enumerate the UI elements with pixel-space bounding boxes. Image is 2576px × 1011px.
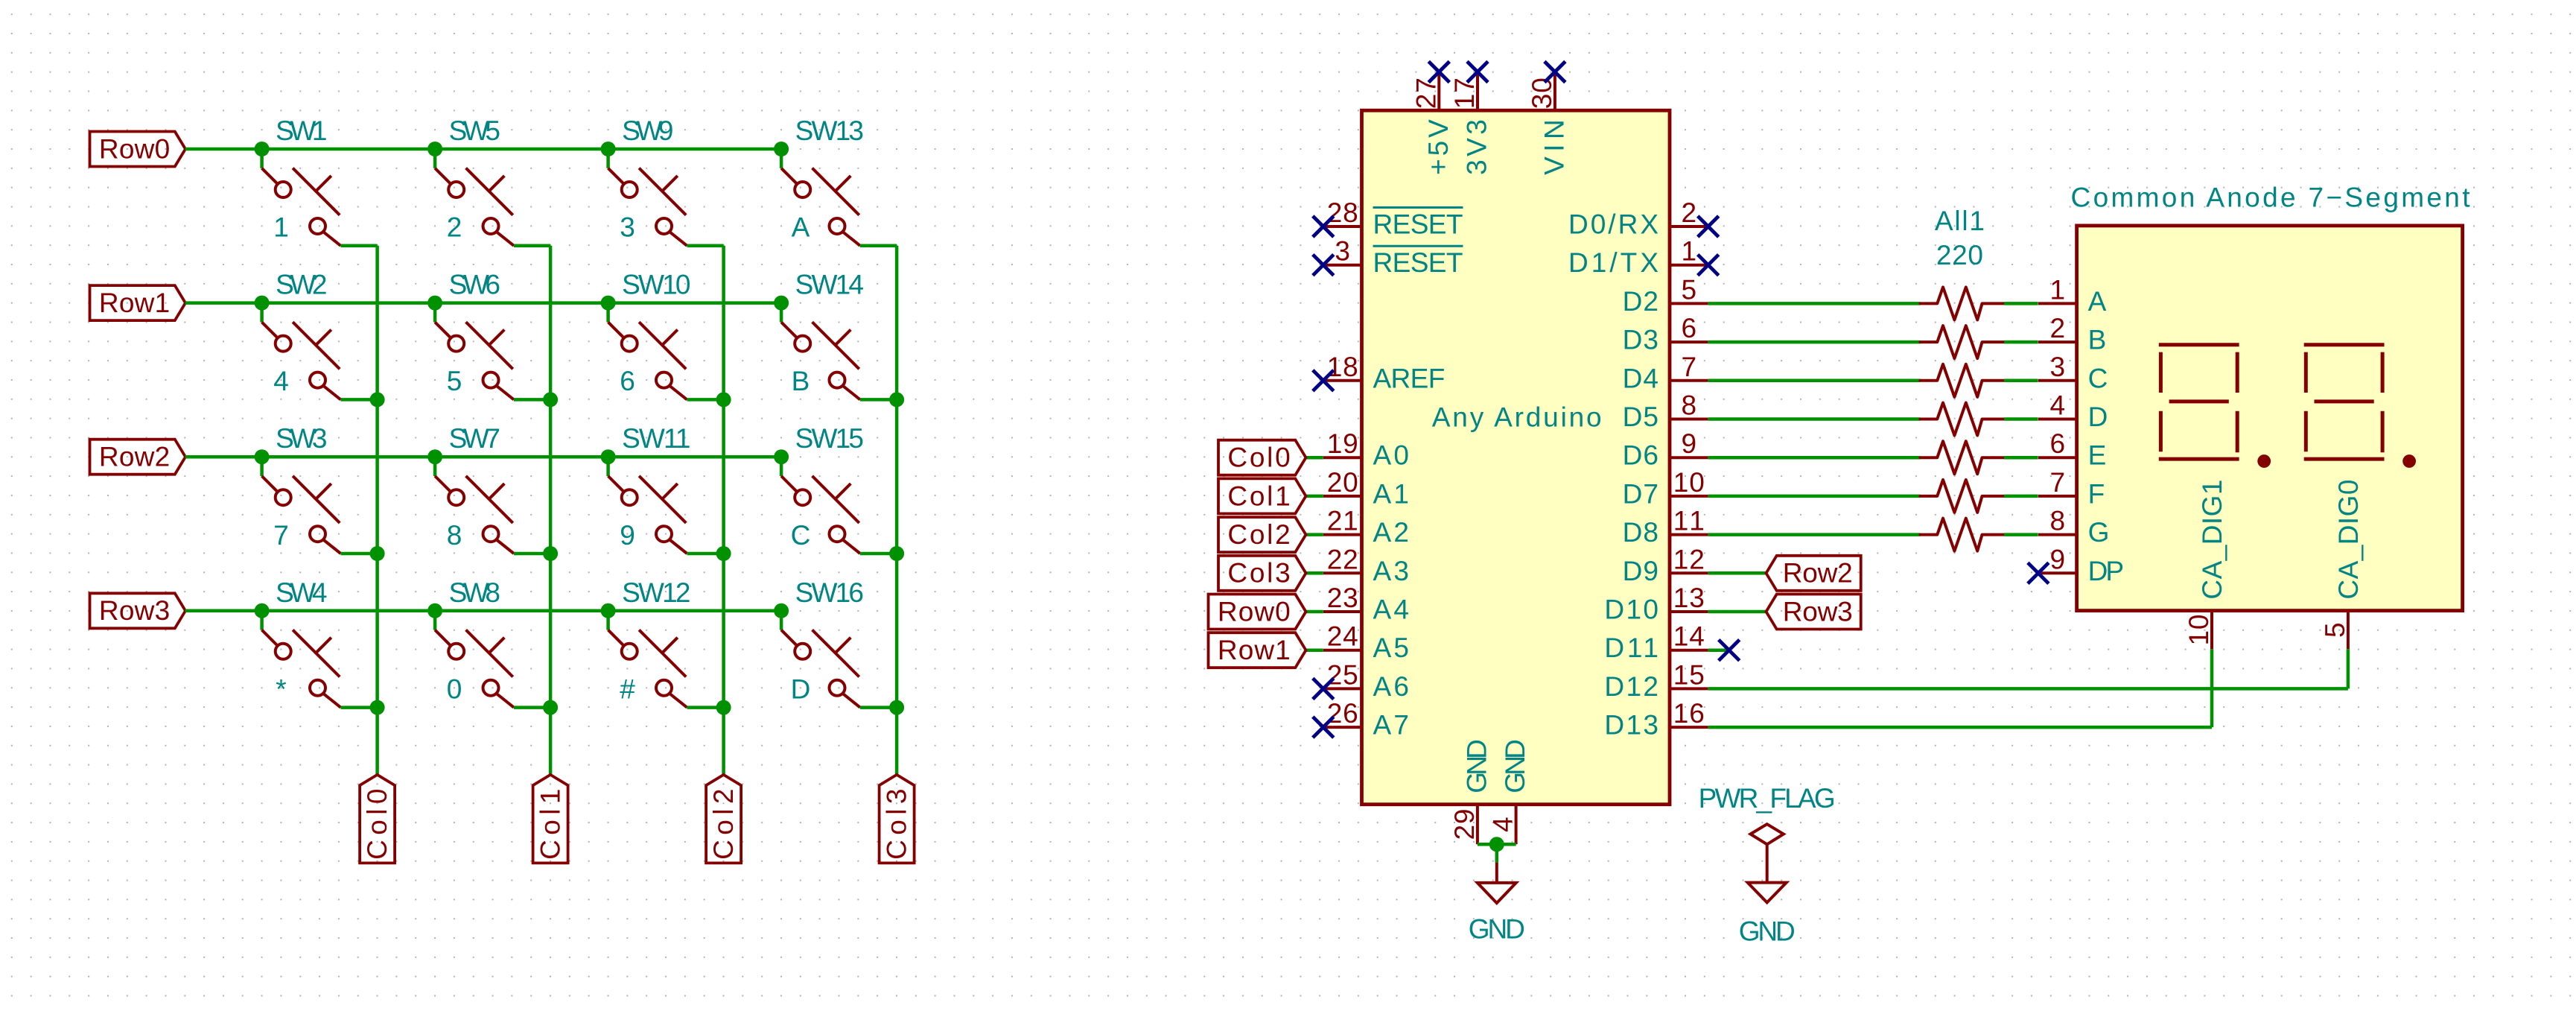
display pin 3 C xyxy=(2038,352,2108,394)
svg-text:A4: A4 xyxy=(1373,595,1409,625)
hierarchical label Row0 xyxy=(1209,595,1306,630)
svg-text:D12: D12 xyxy=(1604,671,1659,702)
svg-text:Col0: Col0 xyxy=(362,789,392,860)
hierarchical label Col2 xyxy=(706,775,741,863)
svg-text:PWR_FLAG: PWR_FLAG xyxy=(1699,783,1836,814)
switch SW16 key "D" xyxy=(781,577,864,708)
wire SW6 output to Col1 xyxy=(514,398,550,402)
pin 21 A2 (left) xyxy=(1323,506,1409,548)
svg-text:RESET: RESET xyxy=(1373,247,1463,278)
junction node row1 / SW14 xyxy=(774,296,789,311)
wire SW3 output to Col0 xyxy=(341,552,378,556)
svg-text:A2: A2 xyxy=(1373,517,1409,548)
no-connect pin 30 xyxy=(1545,62,1565,83)
wire Col3 to pin A3 xyxy=(1306,571,1323,575)
hierarchical label Col3 xyxy=(880,775,915,863)
svg-text:26: 26 xyxy=(1327,698,1358,729)
wire resistor 5 to display xyxy=(2004,456,2038,460)
svg-text:A3: A3 xyxy=(1373,556,1409,586)
svg-text:5: 5 xyxy=(2320,622,2350,638)
wire Col0 to pin A0 xyxy=(1306,456,1323,460)
pin 28 RESET (left) xyxy=(1323,197,1463,240)
svg-text:A: A xyxy=(792,212,810,243)
junction node row2 / SW7 xyxy=(427,449,442,464)
resistor All1 element 4 xyxy=(1920,403,2004,436)
svg-text:SW11: SW11 xyxy=(622,423,690,454)
svg-text:SW6: SW6 xyxy=(449,270,500,300)
svg-text:D10: D10 xyxy=(1604,595,1659,625)
svg-text:8: 8 xyxy=(2050,506,2066,536)
svg-text:D9: D9 xyxy=(1623,556,1659,586)
pin 11 D8 (right) xyxy=(1623,506,1708,548)
resistor All1 element 7 xyxy=(1920,519,2004,551)
pin 17 3V3 (top) xyxy=(1449,72,1492,175)
pin 8 D5 (right) xyxy=(1623,390,1708,433)
svg-text:SW8: SW8 xyxy=(449,577,500,608)
wire SW4 output to Col0 xyxy=(341,706,378,709)
pin 26 A7 (left) xyxy=(1323,698,1409,741)
junction node Col0 / SW3 output xyxy=(370,546,385,561)
wire SW9 output to Col2 xyxy=(687,244,724,248)
svg-text:Row2: Row2 xyxy=(99,442,170,472)
wire Col2 vertical bus xyxy=(722,246,725,775)
junction node row3 / SW16 xyxy=(774,603,789,618)
wire resistor 7 to display xyxy=(2004,533,2038,536)
svg-text:7: 7 xyxy=(273,520,289,551)
pin 12 D9 (right) xyxy=(1623,544,1708,586)
svg-text:SW5: SW5 xyxy=(449,115,500,146)
wire Row2 horizontal bus xyxy=(185,455,781,459)
7-segment digit 1 xyxy=(2159,345,2239,459)
svg-text:A0: A0 xyxy=(1373,440,1409,471)
wire D7 to resistor xyxy=(1708,495,1921,498)
switch SW7 key "8" xyxy=(435,423,514,554)
pin 5 D2 (right) xyxy=(1623,274,1708,317)
junction node Col0 / SW4 output xyxy=(370,700,385,715)
wire D3 to resistor xyxy=(1708,340,1921,344)
switch SW5 key "2" xyxy=(435,115,514,246)
pin 3 RESET (left) xyxy=(1323,236,1463,279)
switch SW1 key "1" xyxy=(262,115,341,246)
svg-text:Common Anode 7−Segment: Common Anode 7−Segment xyxy=(2071,183,2471,213)
ground symbol GND (arduino) xyxy=(1469,863,1525,945)
svg-text:21: 21 xyxy=(1327,506,1358,536)
svg-text:DP: DP xyxy=(2088,556,2124,586)
wire resistor 1 to display xyxy=(2004,302,2038,305)
svg-text:D0/RX: D0/RX xyxy=(1568,209,1659,240)
svg-text:RESET: RESET xyxy=(1373,209,1463,240)
svg-text:Col1: Col1 xyxy=(535,789,566,860)
switch SW6 key "5" xyxy=(435,270,514,400)
svg-text:*: * xyxy=(276,674,286,704)
hierarchical label Col3 xyxy=(1218,556,1306,591)
svg-text:GND: GND xyxy=(1500,739,1530,793)
svg-text:VIN: VIN xyxy=(1539,119,1569,175)
svg-text:28: 28 xyxy=(1327,197,1358,228)
wire Col2 to pin A2 xyxy=(1306,533,1323,536)
pin 19 A0 (left) xyxy=(1323,428,1409,471)
display pin 5 CA_DIG0 xyxy=(2320,480,2364,650)
svg-text:9: 9 xyxy=(620,520,635,551)
display pin 9 DP xyxy=(2038,544,2124,586)
7-segment digit 0 xyxy=(2304,345,2385,459)
svg-text:6: 6 xyxy=(1682,313,1697,343)
display pin 10 CA_DIG1 xyxy=(2184,480,2227,650)
svg-text:20: 20 xyxy=(1327,467,1358,498)
svg-text:D11: D11 xyxy=(1604,633,1659,663)
svg-text:SW13: SW13 xyxy=(795,115,864,146)
pin 13 D10 (right) xyxy=(1604,583,1708,625)
svg-text:C: C xyxy=(791,520,811,551)
IC U? Any Arduino body xyxy=(1362,110,1670,804)
wire D8 to resistor xyxy=(1708,533,1921,536)
pin 15 D12 (right) xyxy=(1604,659,1708,702)
switch SW12 key "#" xyxy=(608,577,691,708)
switch SW9 key "3" xyxy=(608,115,687,246)
svg-text:10: 10 xyxy=(1673,467,1705,498)
svg-text:SW2: SW2 xyxy=(276,270,327,300)
no-connect D0/D1 xyxy=(1698,255,1719,276)
pin 20 A1 (left) xyxy=(1323,467,1409,510)
svg-text:30: 30 xyxy=(1527,77,1557,109)
svg-text:Col0: Col0 xyxy=(1227,443,1290,473)
svg-text:17: 17 xyxy=(1449,77,1480,109)
display pin 1 A xyxy=(2038,274,2107,317)
wire D6 to resistor xyxy=(1708,456,1921,460)
decimal point digit 0 xyxy=(2402,454,2416,468)
pin 24 A5 (left) xyxy=(1323,621,1409,664)
wire SW16 output to Col3 xyxy=(860,706,897,709)
wire Row1 horizontal bus xyxy=(185,301,781,305)
junction node row2 / SW11 xyxy=(601,449,616,464)
svg-text:9: 9 xyxy=(2050,544,2066,574)
svg-text:3: 3 xyxy=(2050,352,2066,382)
wire GND pins join xyxy=(1478,844,1516,862)
svg-text:CA_DIG0: CA_DIG0 xyxy=(2333,480,2364,600)
hierarchical label Row3 xyxy=(90,593,186,628)
hierarchical label Row2 xyxy=(90,440,186,475)
hierarchical label Row1 xyxy=(1209,633,1306,668)
svg-text:2: 2 xyxy=(447,212,462,243)
svg-text:220: 220 xyxy=(1936,240,1983,270)
junction node row0 / SW13 xyxy=(774,142,789,156)
wire SW10 output to Col2 xyxy=(687,398,724,402)
wire SW14 output to Col3 xyxy=(860,398,897,402)
no-connect pin 3 xyxy=(1313,255,1334,276)
pin 7 D4 (right) xyxy=(1623,352,1708,394)
svg-text:Col2: Col2 xyxy=(708,789,739,860)
no-connect pin 17 xyxy=(1467,62,1488,83)
junction node Col2 / SW10 output xyxy=(716,392,731,407)
junction node row3 / SW4 xyxy=(255,603,270,618)
svg-text:A1: A1 xyxy=(1373,478,1409,509)
hierarchical label Col2 xyxy=(1218,517,1306,552)
junction node Col3 / SW15 output xyxy=(889,546,904,561)
hierarchical label Col0 xyxy=(1218,440,1306,475)
svg-text:SW1: SW1 xyxy=(276,115,327,146)
svg-text:1: 1 xyxy=(2050,274,2066,305)
power flag PWR_FLAG xyxy=(1699,783,1836,883)
svg-text:1: 1 xyxy=(1682,236,1697,267)
junction node row0 / SW9 xyxy=(601,142,616,156)
svg-text:11: 11 xyxy=(1673,506,1705,536)
svg-text:CA_DIG1: CA_DIG1 xyxy=(2197,480,2227,600)
svg-text:SW4: SW4 xyxy=(276,577,327,608)
pin 18 AREF (left) xyxy=(1323,352,1446,394)
svg-text:13: 13 xyxy=(1673,583,1705,613)
junction node row3 / SW12 xyxy=(601,603,616,618)
wire Col1 to pin A1 xyxy=(1306,495,1323,498)
wire SW11 output to Col2 xyxy=(687,552,724,556)
display pin 6 E xyxy=(2038,428,2106,471)
svg-text:Col1: Col1 xyxy=(1227,481,1290,511)
svg-text:GND: GND xyxy=(1739,916,1796,947)
wire Row1 to pin A5 xyxy=(1306,648,1323,652)
svg-text:GND: GND xyxy=(1461,739,1492,793)
no-connect pin 26 xyxy=(1313,717,1334,738)
wire Col1 vertical bus xyxy=(549,246,553,775)
junction node Col1 / SW8 output xyxy=(543,700,558,715)
svg-text:Any Arduino: Any Arduino xyxy=(1432,402,1602,433)
no-connect pin 28 xyxy=(1313,216,1334,237)
resistor All1 element 5 xyxy=(1920,441,2004,474)
no-connect pin 18 xyxy=(1313,370,1334,391)
svg-text:+5V: +5V xyxy=(1423,119,1454,175)
pin 6 D3 (right) xyxy=(1623,313,1708,355)
svg-text:G: G xyxy=(2088,517,2110,548)
svg-text:24: 24 xyxy=(1327,621,1358,652)
wire SW5 output to Col1 xyxy=(514,244,550,248)
wire Row3 horizontal bus xyxy=(185,609,781,613)
svg-text:18: 18 xyxy=(1327,352,1358,382)
switch SW11 key "9" xyxy=(608,423,691,554)
svg-text:8: 8 xyxy=(447,520,462,551)
svg-text:A: A xyxy=(2088,286,2107,317)
pin 25 A6 (left) xyxy=(1323,659,1409,702)
wire resistor 3 to display xyxy=(2004,379,2038,383)
svg-text:E: E xyxy=(2088,440,2107,471)
svg-text:6: 6 xyxy=(2050,428,2066,459)
switch SW4 key "*" xyxy=(262,577,341,708)
junction node Col0 / SW2 output xyxy=(370,392,385,407)
switch SW8 key "0" xyxy=(435,577,514,708)
svg-text:10: 10 xyxy=(2184,615,2214,646)
pin 27 +5V (top) xyxy=(1411,72,1454,175)
hierarchical label Col0 xyxy=(360,775,395,863)
wire D5 to resistor xyxy=(1708,417,1921,421)
junction node Col3 / SW14 output xyxy=(889,392,904,407)
svg-text:SW14: SW14 xyxy=(795,270,864,300)
junction node Col2 / SW12 output xyxy=(716,700,731,715)
svg-text:D6: D6 xyxy=(1623,440,1659,471)
svg-text:Row0: Row0 xyxy=(1218,596,1291,627)
svg-text:Row3: Row3 xyxy=(99,595,170,626)
wire resistor 6 to display xyxy=(2004,495,2038,498)
no-connect D11 xyxy=(1719,640,1740,661)
svg-text:F: F xyxy=(2088,478,2105,509)
svg-text:A7: A7 xyxy=(1373,710,1409,741)
no-connect pin 27 xyxy=(1428,62,1449,83)
svg-text:A5: A5 xyxy=(1373,633,1409,663)
svg-text:Col2: Col2 xyxy=(1227,519,1290,550)
svg-text:AREF: AREF xyxy=(1373,363,1446,393)
svg-text:15: 15 xyxy=(1673,659,1705,690)
svg-text:#: # xyxy=(620,674,635,704)
junction node row2 / SW15 xyxy=(774,449,789,464)
junction node Col1 / SW6 output xyxy=(543,392,558,407)
wire Row0 to pin A4 xyxy=(1306,610,1323,614)
svg-text:SW10: SW10 xyxy=(622,270,690,300)
svg-text:2: 2 xyxy=(2050,313,2066,343)
hierarchical label Row0 xyxy=(90,132,186,167)
wire SW1 output to Col0 xyxy=(341,244,378,248)
svg-text:3V3: 3V3 xyxy=(1462,119,1492,175)
pin 16 D13 (right) xyxy=(1604,698,1708,741)
pin 14 D11 (right) xyxy=(1604,621,1708,664)
ground symbol GND (pwr flag) xyxy=(1739,883,1796,947)
svg-text:22: 22 xyxy=(1327,544,1358,574)
svg-text:0: 0 xyxy=(447,674,462,704)
svg-text:Col3: Col3 xyxy=(1227,558,1290,589)
resistor network All1 220 labels xyxy=(1935,206,1985,270)
junction node GND xyxy=(1489,837,1504,852)
switch SW14 key "B" xyxy=(781,270,864,400)
wire SW12 output to Col2 xyxy=(687,706,724,709)
wire Col0 vertical bus xyxy=(375,246,379,775)
svg-text:Row3: Row3 xyxy=(1783,596,1853,627)
svg-text:4: 4 xyxy=(2050,390,2066,421)
pin 10 D7 (right) xyxy=(1623,467,1708,510)
junction node Col2 / SW11 output xyxy=(716,546,731,561)
svg-text:SW7: SW7 xyxy=(449,423,500,454)
svg-text:SW15: SW15 xyxy=(795,423,864,454)
svg-text:SW12: SW12 xyxy=(622,577,690,608)
svg-text:Row0: Row0 xyxy=(99,133,170,164)
wire resistor 2 to display xyxy=(2004,340,2038,344)
no-connect pin 25 xyxy=(1313,678,1334,699)
svg-text:29: 29 xyxy=(1449,809,1480,840)
junction node row1 / SW2 xyxy=(255,296,270,311)
svg-text:4: 4 xyxy=(1488,817,1518,832)
pin 29 GND (bottom) xyxy=(1449,739,1492,844)
switch SW2 key "4" xyxy=(262,270,341,400)
svg-text:GND: GND xyxy=(1469,913,1525,944)
display U? Common Anode 7-Segment title xyxy=(2071,183,2471,213)
svg-text:14: 14 xyxy=(1673,621,1705,652)
svg-text:4: 4 xyxy=(273,366,289,396)
resistor All1 element 1 xyxy=(1920,287,2004,320)
svg-text:C: C xyxy=(2088,363,2108,393)
wire resistor 4 to display xyxy=(2004,417,2038,421)
pin 1 D1/TX (right) xyxy=(1568,236,1708,279)
no-connect D0/D1 xyxy=(1698,216,1719,237)
junction node row1 / SW6 xyxy=(427,296,442,311)
svg-text:25: 25 xyxy=(1327,659,1358,690)
pin 2 D0/RX (right) xyxy=(1568,197,1708,240)
svg-text:D7: D7 xyxy=(1623,478,1659,509)
wire D12 to CA_DIG0 xyxy=(1708,649,2348,688)
svg-text:D1/TX: D1/TX xyxy=(1568,247,1659,278)
pin 23 A4 (left) xyxy=(1323,583,1409,625)
svg-text:Row2: Row2 xyxy=(1783,558,1853,589)
wire D2 to resistor xyxy=(1708,302,1921,305)
svg-text:SW16: SW16 xyxy=(795,577,864,608)
svg-text:Row1: Row1 xyxy=(99,288,170,318)
svg-text:27: 27 xyxy=(1411,77,1441,109)
display pin 4 D xyxy=(2038,390,2108,433)
svg-text:8: 8 xyxy=(1682,390,1697,421)
svg-text:5: 5 xyxy=(1682,274,1697,305)
wire D11 stub xyxy=(1708,648,1729,652)
wire SW15 output to Col3 xyxy=(860,552,897,556)
svg-text:D4: D4 xyxy=(1623,363,1659,393)
pin 4 GND (bottom) xyxy=(1488,739,1531,844)
display pin 2 B xyxy=(2038,313,2106,355)
svg-text:D: D xyxy=(791,674,811,704)
junction node row0 / SW1 xyxy=(255,142,270,156)
svg-text:12: 12 xyxy=(1673,544,1705,574)
resistor All1 element 2 xyxy=(1920,326,2004,358)
svg-text:3: 3 xyxy=(1335,236,1350,267)
junction node row2 / SW3 xyxy=(255,449,270,464)
wire SW13 output to Col3 xyxy=(860,244,897,248)
svg-text:9: 9 xyxy=(1682,428,1697,459)
svg-text:SW9: SW9 xyxy=(622,115,673,146)
display body xyxy=(2077,226,2463,611)
resistor All1 element 6 xyxy=(1920,480,2004,513)
wire Row3 stub xyxy=(1708,610,1766,614)
svg-text:3: 3 xyxy=(620,212,635,243)
wire Row0 horizontal bus xyxy=(185,148,781,151)
svg-text:6: 6 xyxy=(620,366,635,396)
svg-text:Col3: Col3 xyxy=(882,789,912,860)
switch SW10 key "6" xyxy=(608,270,691,400)
junction node Col1 / SW7 output xyxy=(543,546,558,561)
pin 22 A3 (left) xyxy=(1323,544,1409,586)
pin 9 D6 (right) xyxy=(1623,428,1708,471)
junction node row3 / SW8 xyxy=(427,603,442,618)
svg-text:D8: D8 xyxy=(1623,517,1659,548)
svg-text:D13: D13 xyxy=(1604,710,1659,741)
wire SW7 output to Col1 xyxy=(514,552,550,556)
svg-text:7: 7 xyxy=(1682,352,1697,382)
wire D13 to CA_DIG1 xyxy=(1708,649,2212,727)
junction node row1 / SW10 xyxy=(601,296,616,311)
svg-text:SW3: SW3 xyxy=(276,423,327,454)
hierarchical label Col1 xyxy=(533,775,568,863)
svg-text:Row1: Row1 xyxy=(1218,635,1291,665)
hierarchical label Row3 xyxy=(1766,595,1861,630)
svg-text:B: B xyxy=(792,366,810,396)
wire Col3 vertical bus xyxy=(895,246,899,775)
hierarchical label Col1 xyxy=(1218,478,1306,513)
svg-text:1: 1 xyxy=(273,212,289,243)
switch SW3 key "7" xyxy=(262,423,341,554)
resistor All1 element 3 xyxy=(1920,364,2004,397)
no-connect DP xyxy=(2028,562,2049,583)
decimal point digit 1 xyxy=(2257,454,2271,468)
svg-text:All1: All1 xyxy=(1935,206,1985,236)
wire D4 to resistor xyxy=(1708,379,1921,383)
junction node row0 / SW5 xyxy=(427,142,442,156)
svg-text:D3: D3 xyxy=(1623,325,1659,355)
pin 30 VIN (top) xyxy=(1527,72,1570,175)
junction node Col3 / SW16 output xyxy=(889,700,904,715)
svg-text:16: 16 xyxy=(1673,698,1705,729)
svg-text:23: 23 xyxy=(1327,583,1358,613)
svg-text:D2: D2 xyxy=(1623,286,1659,317)
wire SW8 output to Col1 xyxy=(514,706,550,709)
